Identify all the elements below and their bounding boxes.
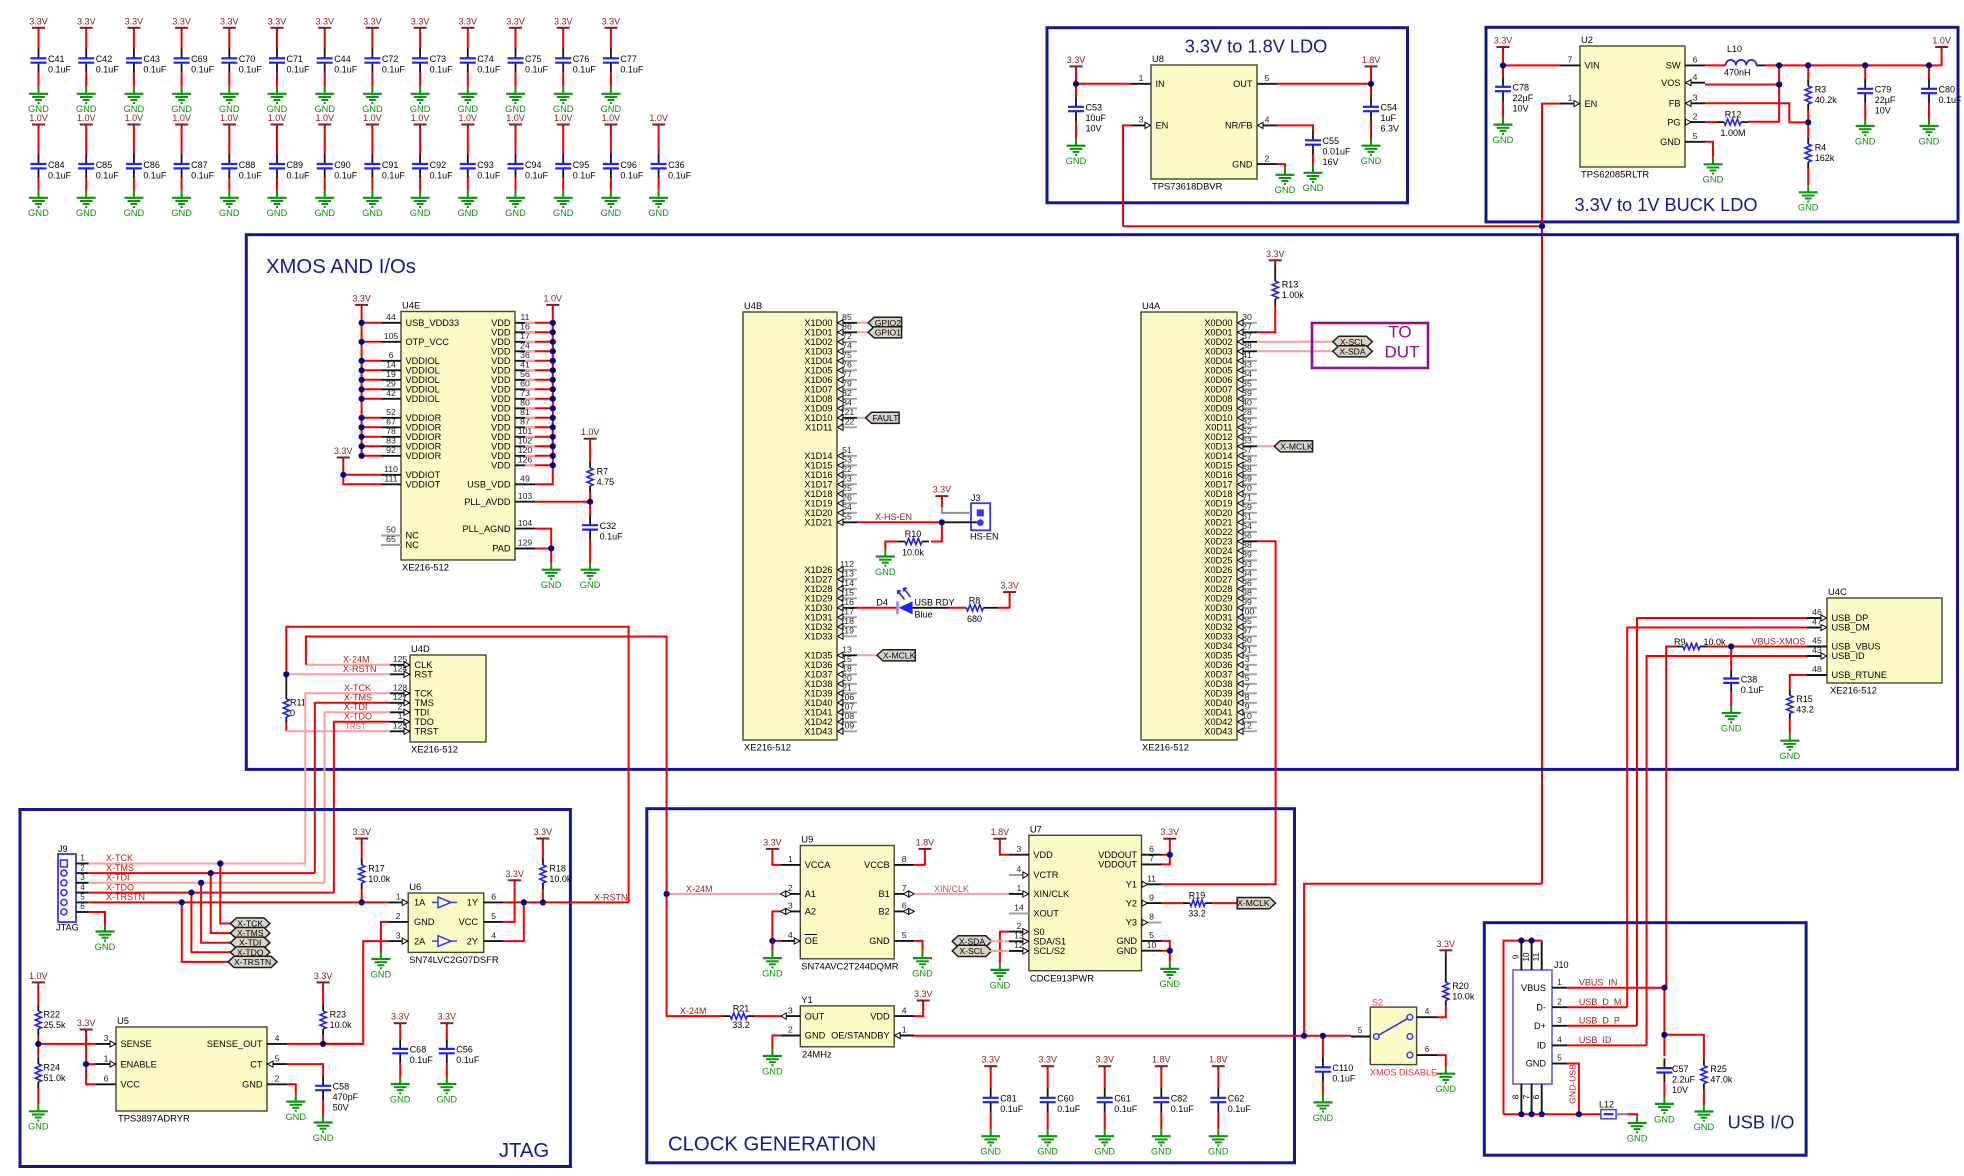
svg-text:26: 26 xyxy=(842,493,852,503)
svg-text:J10: J10 xyxy=(1554,960,1569,970)
wire U7 gnd5 xyxy=(1162,941,1170,951)
svg-text:99: 99 xyxy=(1242,597,1252,607)
svg-text:83: 83 xyxy=(386,436,396,446)
wire R22 bot xyxy=(37,1035,39,1044)
svg-text:VCC: VCC xyxy=(459,917,479,927)
svg-text:EN: EN xyxy=(1585,99,1598,109)
svg-text:22µF: 22µF xyxy=(1513,93,1534,103)
svg-text:6: 6 xyxy=(491,892,496,902)
wire R23 top xyxy=(322,986,324,1005)
svg-text:10: 10 xyxy=(1522,952,1531,962)
svg-text:3.3V: 3.3V xyxy=(1038,1055,1057,1065)
svg-text:1.0V: 1.0V xyxy=(125,113,144,123)
svg-text:43.2: 43.2 xyxy=(1796,705,1814,715)
wire C36 gnd xyxy=(658,178,660,191)
net label X-24M xyxy=(343,655,370,665)
power 3.3V xyxy=(554,16,573,32)
svg-text:0.1uF: 0.1uF xyxy=(48,65,72,75)
wire C41 gnd xyxy=(38,73,40,87)
svg-text:470nH: 470nH xyxy=(1724,68,1751,78)
svg-text:R20: R20 xyxy=(1452,981,1469,991)
svg-text:7: 7 xyxy=(1245,683,1250,693)
net label USB_D_M xyxy=(1579,997,1622,1007)
pin 53 X1D15 xyxy=(804,455,857,471)
net label X-TDI xyxy=(344,702,368,712)
wire R11 top xyxy=(285,674,287,693)
svg-text:R17: R17 xyxy=(368,864,385,874)
ground xyxy=(410,87,431,114)
wire X-24M loop xyxy=(306,637,667,894)
svg-text:0.1uF: 0.1uF xyxy=(410,1055,434,1065)
svg-text:X0D03: X0D03 xyxy=(1204,347,1232,357)
wire VDD 80 b xyxy=(535,407,553,409)
svg-text:129: 129 xyxy=(518,538,533,548)
wire X-TDO drop xyxy=(191,893,230,953)
wire U4E 83 xyxy=(362,445,381,447)
svg-text:VDDIOL: VDDIOL xyxy=(406,375,440,385)
svg-text:42: 42 xyxy=(386,388,396,398)
net label X-TMS xyxy=(344,693,372,703)
pin 35 X0D07 xyxy=(1204,379,1257,395)
svg-text:RST: RST xyxy=(415,670,434,680)
svg-text:VDDIOT: VDDIOT xyxy=(406,480,441,490)
svg-text:1.0V: 1.0V xyxy=(581,427,600,437)
wire C57 gnd xyxy=(1663,1082,1665,1097)
wire VDD 11 xyxy=(525,322,535,324)
pin 51 X1D14 xyxy=(804,445,857,461)
svg-text:VDDIOL: VDDIOL xyxy=(406,385,440,395)
svg-text:R10: R10 xyxy=(905,529,922,539)
svg-text:4: 4 xyxy=(788,930,793,940)
svg-text:5: 5 xyxy=(80,893,85,902)
svg-text:X1D39: X1D39 xyxy=(804,689,832,699)
svg-text:GND: GND xyxy=(805,1031,826,1041)
ground xyxy=(1798,185,1819,212)
pin 124 RST xyxy=(390,664,433,680)
junction xyxy=(359,396,365,402)
pin 2 GND xyxy=(1232,153,1277,169)
svg-text:3.3V: 3.3V xyxy=(505,869,524,879)
svg-text:C44: C44 xyxy=(334,54,351,64)
svg-text:CT: CT xyxy=(250,1059,263,1069)
svg-text:2: 2 xyxy=(398,702,403,712)
ground xyxy=(1654,1097,1675,1124)
svg-text:R4: R4 xyxy=(1815,143,1827,153)
pin 4 J9 xyxy=(76,883,89,893)
wire VDD 81 xyxy=(525,417,535,419)
svg-text:44: 44 xyxy=(386,312,396,322)
ground xyxy=(457,87,478,114)
svg-text:C42: C42 xyxy=(96,54,113,64)
svg-text:Y3: Y3 xyxy=(1126,918,1137,928)
svg-text:GND: GND xyxy=(171,208,192,218)
wire VDD 120 b xyxy=(535,455,553,457)
pin 42 VDDIOL xyxy=(381,388,440,404)
power 1.0V xyxy=(315,113,334,129)
svg-text:3.3V: 3.3V xyxy=(172,16,191,26)
wire USB_VDD 49 xyxy=(535,465,553,484)
pin 89 X0D25 xyxy=(1204,550,1257,566)
svg-text:6: 6 xyxy=(1693,55,1698,65)
svg-text:C41: C41 xyxy=(48,54,65,64)
svg-text:XIN/CLK: XIN/CLK xyxy=(934,884,969,894)
pin 6 VCC xyxy=(96,1074,140,1090)
svg-text:VBUS_IN: VBUS_IN xyxy=(1579,978,1618,988)
capacitor C77 xyxy=(603,49,644,75)
wire C89 gnd xyxy=(276,178,278,191)
wire R8 to 3.3V xyxy=(998,596,1010,608)
pin 26 X1D19 xyxy=(804,493,857,509)
svg-text:GND: GND xyxy=(1117,936,1138,946)
pin 100 X0D31 xyxy=(1204,607,1257,623)
pin 7 B1 xyxy=(878,883,914,899)
svg-text:PLL_AVDD: PLL_AVDD xyxy=(464,497,511,507)
power 3.3V R20 xyxy=(1437,939,1456,955)
svg-text:10V: 10V xyxy=(1086,124,1102,134)
wire U4E 105 xyxy=(362,341,381,343)
power 1.0V xyxy=(268,113,287,129)
net flag X-SDA xyxy=(1333,346,1373,357)
junction xyxy=(359,367,365,373)
svg-text:4.75: 4.75 xyxy=(597,477,615,487)
pin 41 VDD xyxy=(491,360,535,376)
capacitor C82 xyxy=(1153,1088,1194,1114)
wire R25 branch xyxy=(1664,1035,1704,1060)
net label X-TDO xyxy=(344,712,372,722)
power 1.0V xyxy=(544,293,563,309)
pin 128 TCK xyxy=(390,683,434,699)
pin 2 GND xyxy=(780,1025,825,1041)
junction xyxy=(550,443,556,449)
wire X-TDO row xyxy=(89,892,334,894)
svg-text:C72: C72 xyxy=(382,54,399,64)
pin 1 OE/STANDBY xyxy=(831,1025,914,1041)
wire C91 1.0V xyxy=(371,129,373,155)
svg-text:OUT: OUT xyxy=(1233,79,1253,89)
resistor R20 xyxy=(1443,976,1475,1006)
svg-text:3: 3 xyxy=(788,1005,793,1015)
svg-text:U4A: U4A xyxy=(1142,300,1161,311)
power 1.0V xyxy=(506,113,525,129)
net label X-TRSTN xyxy=(106,892,145,902)
capacitor C72 xyxy=(364,49,405,75)
svg-text:Y2: Y2 xyxy=(1126,898,1137,908)
svg-text:11: 11 xyxy=(1147,874,1156,884)
svg-text:C43: C43 xyxy=(143,54,160,64)
power 3.3V U9 xyxy=(763,837,782,853)
wire C74 3.3V xyxy=(467,32,469,49)
pin 76 X1D05 xyxy=(804,360,857,376)
pin 91 X0D35 xyxy=(1204,645,1257,661)
pin 88 X0D24 xyxy=(1204,540,1257,556)
wire VDD 36 xyxy=(525,360,535,362)
wire U4E 78 xyxy=(362,436,381,438)
wire OE gnd xyxy=(771,941,773,951)
wire C38 gnd xyxy=(1730,693,1732,706)
wire C84 1.0V xyxy=(38,129,40,155)
pin 10 J10 xyxy=(1522,941,1532,970)
svg-text:2: 2 xyxy=(80,863,85,872)
wire R22 top xyxy=(37,986,39,1005)
capacitor C73 xyxy=(412,49,453,75)
svg-text:22µF: 22µF xyxy=(1875,95,1896,105)
pin 3 OUT xyxy=(780,1005,824,1021)
svg-text:S0: S0 xyxy=(1033,927,1044,937)
svg-text:49: 49 xyxy=(520,474,530,484)
pin 3 SENSE xyxy=(96,1033,152,1049)
resistor R25 xyxy=(1701,1060,1733,1090)
svg-text:28: 28 xyxy=(1242,407,1252,417)
svg-text:NC: NC xyxy=(406,531,420,541)
wire GND-USB xyxy=(1567,1064,1579,1115)
power 1.0V R7 xyxy=(581,427,600,443)
pin 63 X0D13 xyxy=(1204,436,1257,452)
svg-text:GND: GND xyxy=(1721,723,1742,733)
svg-text:10.0k: 10.0k xyxy=(549,874,572,884)
svg-text:X1D09: X1D09 xyxy=(804,404,832,414)
capacitor C42 xyxy=(78,49,119,75)
pin 54 X1D20 xyxy=(804,502,857,518)
svg-text:5: 5 xyxy=(1557,1054,1562,1063)
wire TRST wire xyxy=(286,730,390,732)
svg-text:0.1uF: 0.1uF xyxy=(239,170,263,180)
svg-text:FB: FB xyxy=(1669,99,1681,109)
svg-text:U8: U8 xyxy=(1152,53,1164,64)
svg-text:C69: C69 xyxy=(191,54,208,64)
capacitor C95 xyxy=(555,154,596,180)
pin 20 X1D38 xyxy=(804,673,857,689)
svg-text:3: 3 xyxy=(1693,93,1698,103)
svg-text:69: 69 xyxy=(1242,474,1252,484)
svg-text:0.1uF: 0.1uF xyxy=(1332,1074,1356,1084)
wire C88 gnd xyxy=(228,178,230,191)
power 3.3V xyxy=(352,293,371,309)
ground xyxy=(505,87,526,114)
svg-text:0.1uF: 0.1uF xyxy=(620,170,644,180)
capacitor C78 xyxy=(1495,77,1534,114)
svg-text:X1D21: X1D21 xyxy=(804,518,832,528)
wire USB_ID w xyxy=(1567,1044,1647,1046)
svg-text:3.3V to 1.8V LDO: 3.3V to 1.8V LDO xyxy=(1185,36,1328,56)
svg-text:78: 78 xyxy=(386,426,396,436)
capacitor C32 xyxy=(582,515,623,541)
pin 46 USB_DP xyxy=(1807,607,1868,623)
svg-text:3.3V: 3.3V xyxy=(125,16,144,26)
sheet box XMOS AND I/Os xyxy=(246,235,1957,770)
svg-text:4: 4 xyxy=(491,930,496,940)
wire U4E 42 xyxy=(362,398,381,400)
junction xyxy=(359,424,365,430)
svg-text:GND: GND xyxy=(1694,1122,1715,1132)
wire C70 gnd xyxy=(228,73,230,87)
wire VDD 16 xyxy=(525,331,535,333)
svg-text:1.0V: 1.0V xyxy=(411,113,430,123)
pin 48 USB_RTUNE xyxy=(1807,664,1887,680)
svg-text:X-TRSTN: X-TRSTN xyxy=(234,957,271,967)
svg-text:GND: GND xyxy=(124,208,145,218)
ground xyxy=(580,563,601,590)
svg-text:GND: GND xyxy=(28,208,49,218)
wire C79 stub xyxy=(1864,65,1866,79)
pin 1 ENABLE xyxy=(96,1053,157,1069)
wire VDDOUT wires xyxy=(1162,843,1170,855)
svg-text:VDD: VDD xyxy=(491,318,511,328)
wire OE/STANDBY run xyxy=(914,1035,1350,1037)
ferrite bead L12 xyxy=(1599,1099,1616,1118)
inductor L10 xyxy=(1724,44,1757,78)
wire SENSE wire xyxy=(38,1043,96,1045)
wire VDD 101 xyxy=(525,436,535,438)
wire VDDOUT7 xyxy=(1162,855,1170,865)
svg-text:GND: GND xyxy=(1313,1113,1334,1123)
pin 5 J10 xyxy=(1552,1054,1567,1064)
ground xyxy=(1066,139,1087,166)
wire CT wire xyxy=(287,1064,323,1076)
capacitor C91 xyxy=(364,154,405,180)
power 3.3V xyxy=(268,16,287,32)
wire U4E 52 xyxy=(362,417,381,419)
pin 24 VDD xyxy=(491,341,535,357)
svg-text:XE216-512: XE216-512 xyxy=(744,742,791,753)
svg-text:1.8V: 1.8V xyxy=(1209,1055,1228,1065)
svg-text:GND: GND xyxy=(1779,751,1800,761)
svg-text:3.3V: 3.3V xyxy=(1494,36,1513,46)
wire R25 gnd xyxy=(1703,1090,1705,1105)
wire VDD 36 b xyxy=(535,360,553,362)
svg-text:0.1uF: 0.1uF xyxy=(1741,685,1765,695)
wire C60 bot xyxy=(1047,1112,1049,1129)
wire VDD 73 xyxy=(525,398,535,400)
svg-text:ENABLE: ENABLE xyxy=(121,1059,157,1069)
capacitor C88 xyxy=(221,154,262,180)
svg-text:C76: C76 xyxy=(573,54,590,64)
pin 4 VDD xyxy=(870,1005,914,1021)
svg-text:GND-USB: GND-USB xyxy=(1568,1064,1578,1104)
pin 5 xyxy=(484,911,504,922)
svg-text:X1D11: X1D11 xyxy=(805,423,832,433)
pin 3 A2 xyxy=(780,901,816,917)
svg-text:NC: NC xyxy=(406,540,420,550)
svg-text:38: 38 xyxy=(1242,341,1252,351)
svg-text:GND: GND xyxy=(505,208,526,218)
svg-text:1: 1 xyxy=(788,854,793,864)
svg-text:4: 4 xyxy=(1016,864,1021,874)
svg-text:5: 5 xyxy=(1265,73,1270,83)
svg-text:X-RSTN: X-RSTN xyxy=(594,892,628,902)
svg-text:X1D27: X1D27 xyxy=(804,575,832,585)
pin 43 USB_ID xyxy=(1807,645,1865,661)
pin 81 VDD xyxy=(491,407,535,423)
wire VDD 87 b xyxy=(535,426,553,428)
svg-text:3.3V: 3.3V xyxy=(1266,249,1285,259)
capacitor C81 xyxy=(983,1088,1024,1114)
svg-text:3.3V: 3.3V xyxy=(77,1018,96,1028)
ground xyxy=(1037,1129,1058,1156)
wire C41 3.3V xyxy=(38,32,40,49)
svg-text:X0D28: X0D28 xyxy=(1204,584,1232,594)
svg-text:U7: U7 xyxy=(1030,824,1042,835)
svg-text:3: 3 xyxy=(1245,654,1250,664)
ground xyxy=(124,87,145,114)
svg-text:3.3V: 3.3V xyxy=(981,1055,1000,1065)
IC U4D xyxy=(410,643,486,755)
pin 108 X1D42 xyxy=(804,711,857,727)
svg-text:C88: C88 xyxy=(239,160,256,170)
svg-text:A1: A1 xyxy=(805,889,816,899)
svg-text:XMOS DISABLE: XMOS DISABLE xyxy=(1370,1068,1437,1078)
capacitor C43 xyxy=(126,49,167,75)
wire C58 gnd xyxy=(322,1100,324,1116)
wire R4 top xyxy=(1807,122,1809,138)
pin 71 X0D19 xyxy=(1204,493,1257,509)
svg-text:VCTR: VCTR xyxy=(1033,870,1058,880)
svg-text:1.0V: 1.0V xyxy=(29,113,48,123)
svg-text:X0D15: X0D15 xyxy=(1204,461,1232,471)
svg-text:C56: C56 xyxy=(456,1045,473,1055)
junction xyxy=(550,329,556,335)
IC U2 xyxy=(1580,34,1685,180)
svg-text:51: 51 xyxy=(842,445,852,455)
svg-text:VDDIOR: VDDIOR xyxy=(406,413,442,423)
svg-text:0.1uF: 0.1uF xyxy=(287,65,311,75)
pin 114 X1D28 xyxy=(804,578,857,594)
wire C85 gnd xyxy=(85,178,87,191)
svg-text:XE216-512: XE216-512 xyxy=(402,562,449,573)
svg-text:C93: C93 xyxy=(477,160,494,170)
wire VBUS vert xyxy=(1663,988,1665,1057)
capacitor C87 xyxy=(174,154,215,180)
svg-text:0.1uF: 0.1uF xyxy=(430,170,454,180)
pin 32 X0D11 xyxy=(1205,417,1257,433)
svg-text:0.1uF: 0.1uF xyxy=(456,1055,480,1065)
pin 4 VOS xyxy=(1661,72,1705,88)
ground xyxy=(1094,1129,1115,1156)
pin 111 VDDIOT xyxy=(381,474,441,490)
svg-text:7: 7 xyxy=(902,883,907,893)
wire C55 gnd xyxy=(1312,155,1314,166)
pin 15 X1D36 xyxy=(804,654,857,670)
ground xyxy=(267,191,288,218)
svg-text:X-SCL: X-SCL xyxy=(959,946,985,956)
svg-text:91: 91 xyxy=(1242,645,1252,655)
svg-text:ID: ID xyxy=(1537,1041,1547,1051)
power 3.3V xyxy=(172,16,191,32)
svg-text:GND: GND xyxy=(1208,1147,1229,1157)
svg-text:6: 6 xyxy=(104,1074,109,1084)
junction xyxy=(283,671,289,677)
svg-text:USB I/O: USB I/O xyxy=(1728,1112,1795,1132)
svg-text:X1D32: X1D32 xyxy=(804,622,832,632)
wire VOS link xyxy=(1705,65,1779,84)
wire R21 to OUT xyxy=(754,1015,780,1017)
svg-text:23: 23 xyxy=(842,474,852,484)
wire VDD 60 xyxy=(525,388,535,390)
svg-text:X0D06: X0D06 xyxy=(1204,375,1232,385)
wire U7 gnd10 xyxy=(1162,951,1170,962)
power 3.3V C81 xyxy=(981,1055,1000,1071)
net label VBUS-XMOS xyxy=(1752,637,1806,647)
svg-text:C32: C32 xyxy=(600,521,617,531)
svg-text:0.1uF: 0.1uF xyxy=(1114,1104,1138,1114)
wire C60 top xyxy=(1047,1070,1049,1088)
svg-text:1.8V: 1.8V xyxy=(1152,1055,1171,1065)
wire R8 out xyxy=(983,607,998,609)
svg-text:GND: GND xyxy=(313,1133,334,1143)
wire C79 gnd xyxy=(1864,103,1866,119)
svg-text:2.2uF: 2.2uF xyxy=(1672,1074,1696,1084)
power 3.3V C61 xyxy=(1095,1055,1114,1071)
junction xyxy=(1529,938,1535,944)
